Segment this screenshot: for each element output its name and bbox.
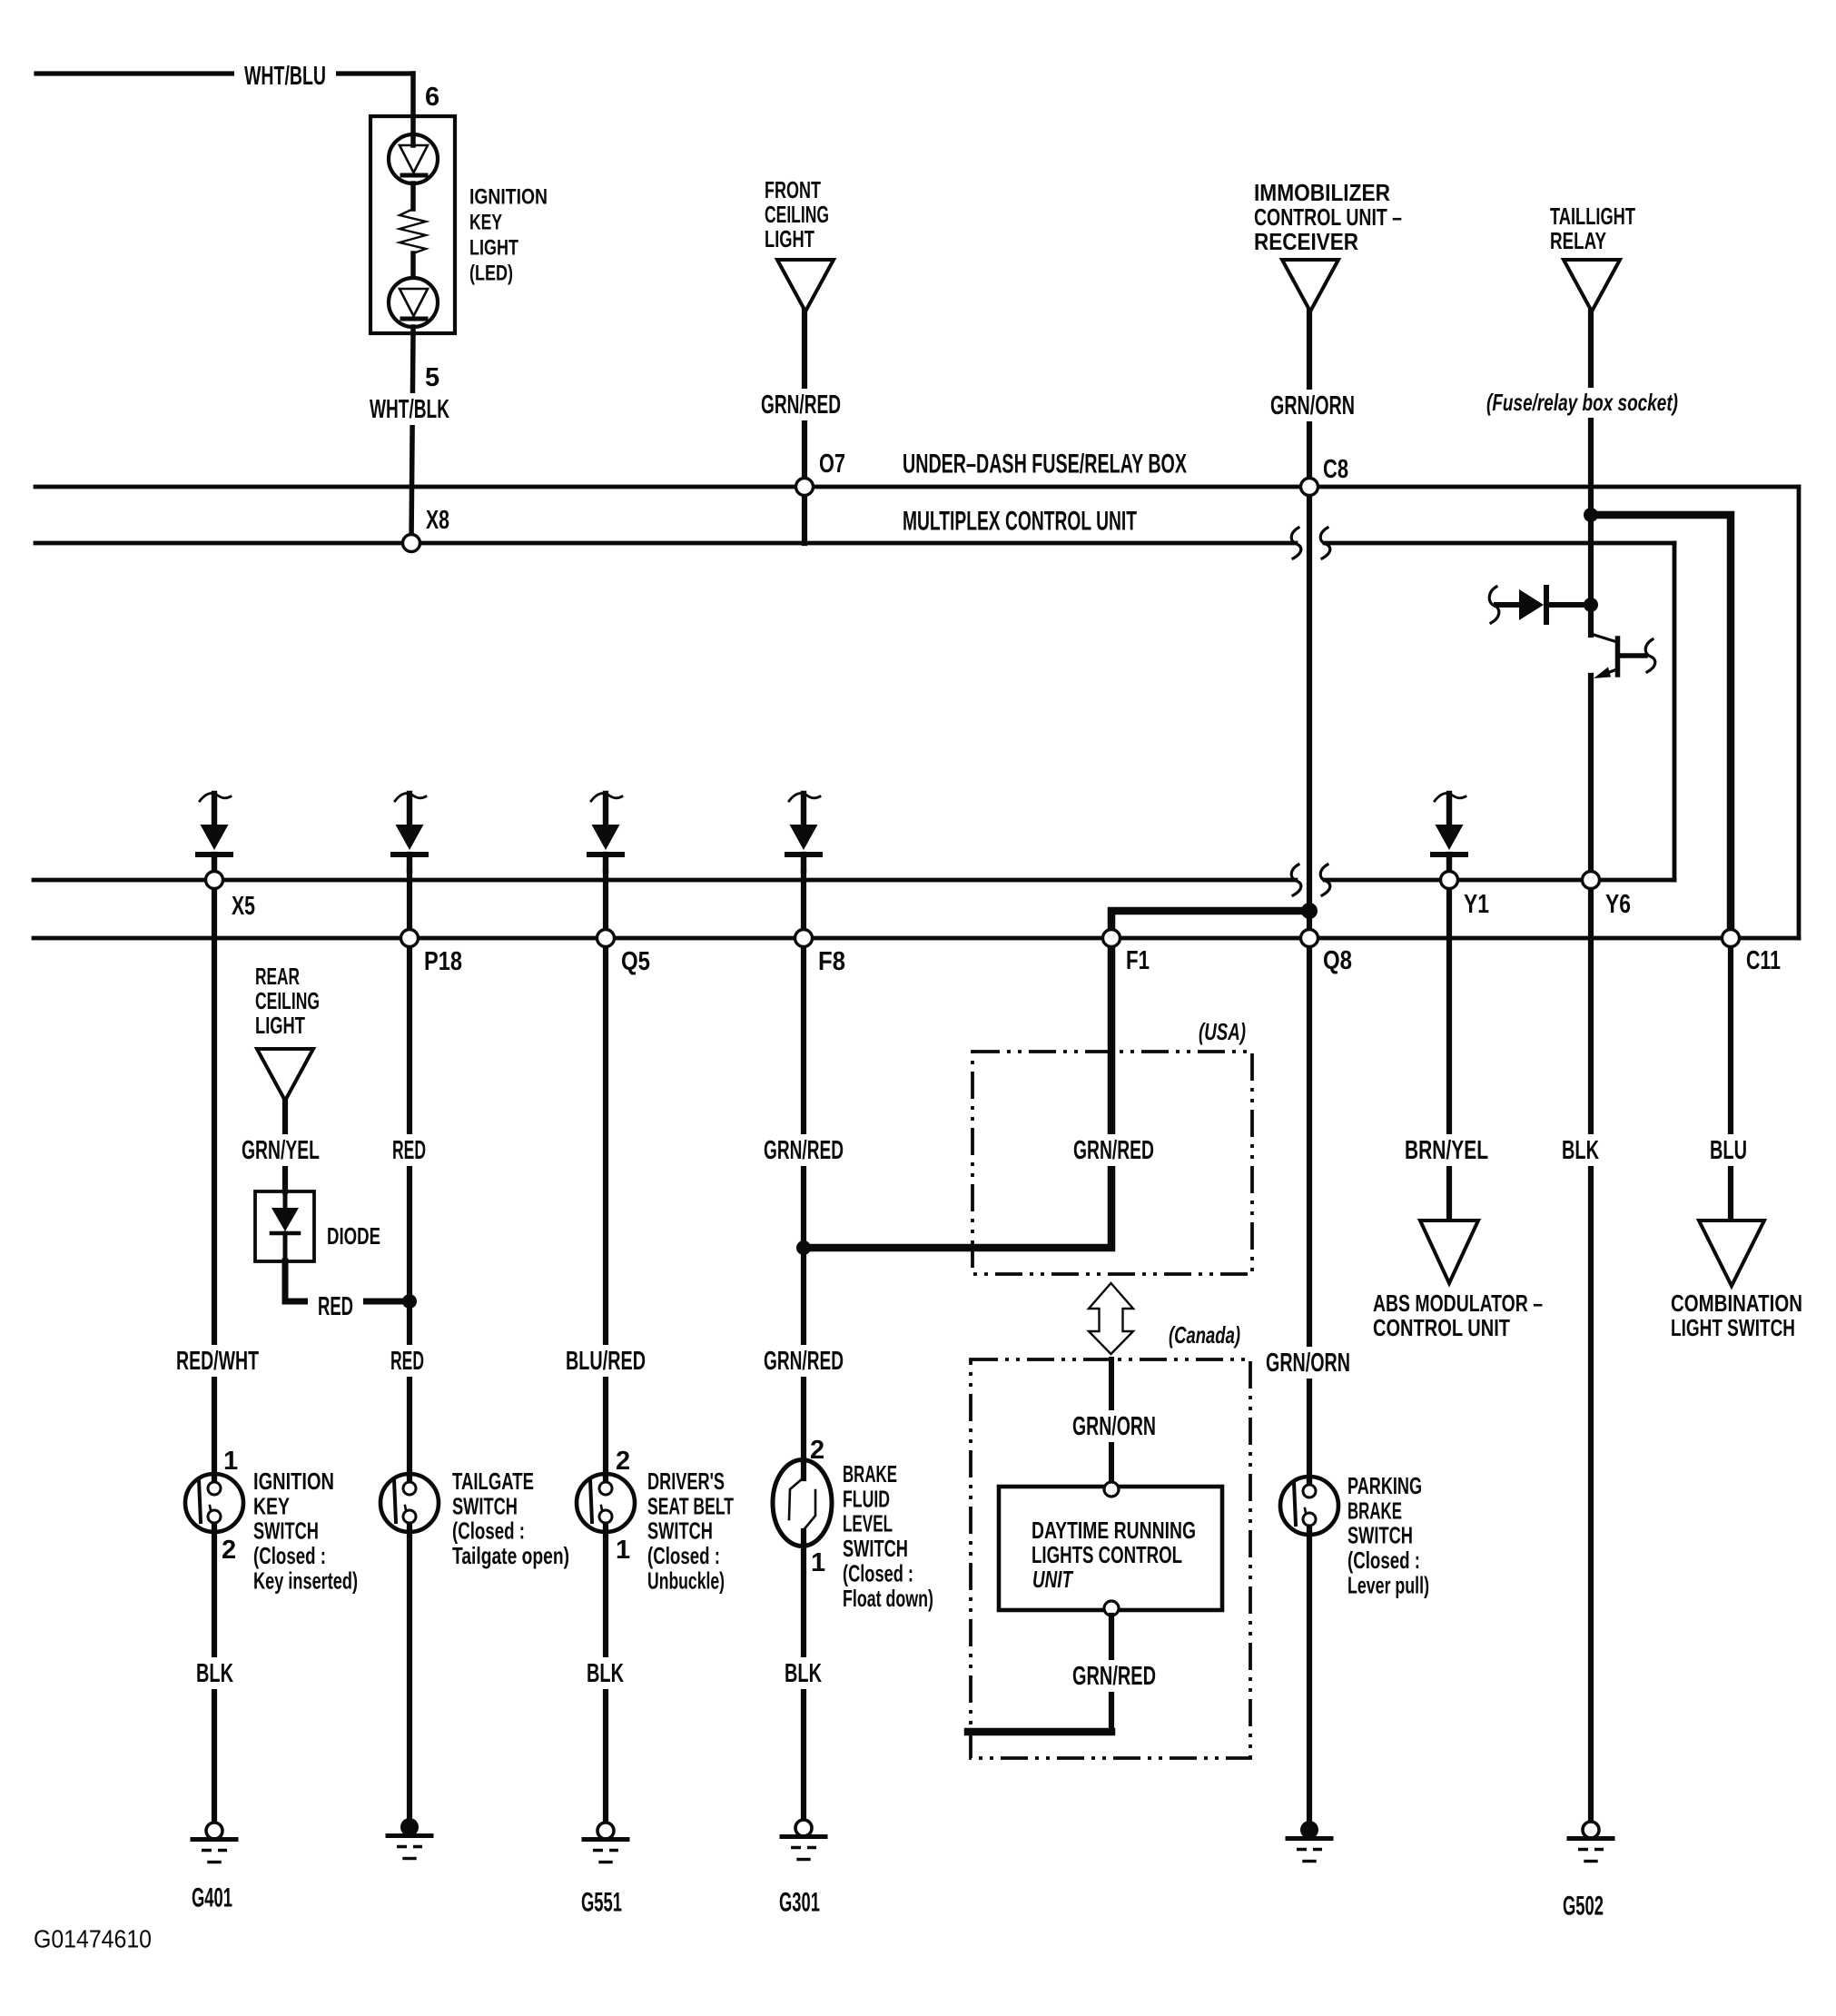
svg-text:SEAT BELT: SEAT BELT — [647, 1492, 734, 1519]
USA dashed box — [972, 1052, 1252, 1274]
ground G301 — [795, 1820, 812, 1836]
svg-text:CONTROL UNIT: CONTROL UNIT — [1373, 1314, 1510, 1341]
svg-text:G401: G401 — [192, 1883, 232, 1913]
transistor (fuse/relay box internal) — [1591, 634, 1617, 642]
break marks on line2 — [1291, 528, 1301, 558]
svg-text:MULTIPLEX CONTROL UNIT: MULTIPLEX CONTROL UNIT — [903, 507, 1137, 537]
wire RED jumper to tailgate column — [285, 1261, 410, 1301]
svg-text:(Fuse/relay box socket): (Fuse/relay box socket) — [1486, 389, 1678, 416]
svg-text:FRONT: FRONT — [765, 176, 821, 203]
svg-text:Float down): Float down) — [843, 1585, 933, 1612]
brake fluid level switch — [773, 1460, 832, 1547]
svg-text:(Closed :: (Closed : — [1347, 1547, 1420, 1574]
svg-text:RED: RED — [318, 1292, 353, 1321]
svg-text:CEILING: CEILING — [255, 987, 320, 1014]
svg-text:FLUID: FLUID — [843, 1485, 890, 1512]
node F8 — [795, 930, 813, 947]
thick jumper from Q8 wire to F1 — [1111, 911, 1309, 931]
svg-text:IGNITION: IGNITION — [469, 185, 548, 210]
svg-text:TAILGATE: TAILGATE — [452, 1468, 534, 1495]
svg-text:BLU: BLU — [1710, 1136, 1747, 1165]
wire BLK to G301 — [801, 1531, 806, 1820]
junction to thick branch — [1584, 508, 1598, 522]
node Q8 — [1301, 930, 1318, 947]
svg-text:BLK: BLK — [1562, 1136, 1599, 1165]
svg-text:1: 1 — [223, 1447, 238, 1476]
svg-text:(Closed :: (Closed : — [843, 1560, 913, 1587]
svg-text:DRIVER'S: DRIVER'S — [647, 1468, 725, 1495]
svg-text:Y1: Y1 — [1464, 890, 1489, 919]
junction on tailgate wire — [402, 1294, 417, 1309]
svg-text:RECEIVER: RECEIVER — [1254, 228, 1358, 255]
svg-text:IMMOBILIZER: IMMOBILIZER — [1254, 179, 1390, 206]
svg-text:LIGHT: LIGHT — [255, 1012, 305, 1039]
driver's seat belt switch — [577, 1474, 635, 1532]
svg-text:X8: X8 — [426, 506, 449, 535]
wire GRN/ORN into DRL unit — [1109, 1359, 1114, 1483]
svg-text:BLK: BLK — [785, 1659, 822, 1688]
svg-text:BRAKE: BRAKE — [843, 1460, 897, 1487]
svg-text:KEY: KEY — [469, 211, 502, 235]
wire GRN/YEL down to diode — [282, 1101, 288, 1191]
svg-text:CONTROL UNIT –: CONTROL UNIT – — [1254, 203, 1402, 231]
wire BLK to G551 — [603, 1531, 608, 1823]
diode (rear ceiling light) box — [255, 1191, 314, 1261]
svg-text:COMBINATION: COMBINATION — [1671, 1290, 1802, 1317]
svg-text:Q5: Q5 — [621, 947, 650, 976]
svg-text:5: 5 — [425, 363, 439, 392]
svg-text:UNIT: UNIT — [1032, 1566, 1074, 1593]
wire taillight relay down (upper) — [1588, 311, 1594, 635]
svg-text:LIGHT: LIGHT — [469, 236, 518, 261]
svg-text:BRN/YEL: BRN/YEL — [1405, 1136, 1488, 1165]
svg-text:G01474610: G01474610 — [34, 1924, 152, 1952]
svg-text:(Canada): (Canada) — [1169, 1321, 1240, 1349]
wire parking brake to ground — [1307, 1534, 1312, 1822]
wire: MULTIPLEX CONTROL UNIT bus (line 2) — [35, 541, 1296, 546]
svg-text:SWITCH: SWITCH — [1347, 1522, 1413, 1549]
svg-text:IGNITION: IGNITION — [253, 1468, 334, 1495]
svg-text:GRN/RED: GRN/RED — [1072, 1662, 1156, 1691]
svg-text:C11: C11 — [1746, 946, 1781, 975]
svg-text:BLK: BLK — [196, 1659, 233, 1688]
wire GRN/RED front ceiling to O7 and line2 — [802, 311, 807, 543]
diode into multiplex unit above F8 — [789, 794, 820, 801]
wire RED tailgate column — [407, 870, 412, 1475]
DRL terminal top — [1104, 1482, 1119, 1497]
svg-text:DIODE: DIODE — [327, 1222, 380, 1250]
svg-text:O7: O7 — [819, 450, 845, 479]
wire: under-dash bus (line 4) — [34, 936, 1799, 941]
svg-text:UNDER–DASH FUSE/RELAY BOX: UNDER–DASH FUSE/RELAY BOX — [903, 450, 1187, 479]
svg-text:F8: F8 — [818, 947, 845, 976]
svg-text:P18: P18 — [424, 947, 462, 976]
thick wire to C11 column — [1591, 515, 1731, 938]
svg-text:Y6: Y6 — [1605, 890, 1631, 919]
wire BRN/YEL to ABS — [1446, 889, 1452, 1220]
svg-text:RELAY: RELAY — [1550, 227, 1606, 254]
node Y6 — [1583, 872, 1600, 889]
resistor (in LED box) — [410, 183, 416, 209]
node Y1 — [1441, 872, 1458, 889]
combination light switch triangle — [1699, 1220, 1764, 1286]
wire BLU to combination light switch — [1728, 947, 1733, 1220]
svg-text:SWITCH: SWITCH — [253, 1517, 319, 1545]
svg-text:Tailgate open): Tailgate open) — [452, 1542, 569, 1569]
svg-text:BLU/RED: BLU/RED — [566, 1347, 646, 1376]
svg-text:GRN/RED: GRN/RED — [761, 390, 841, 420]
svg-text:2: 2 — [810, 1436, 824, 1465]
svg-text:2: 2 — [616, 1447, 630, 1476]
svg-text:(Closed :: (Closed : — [253, 1542, 326, 1569]
wire tailgate to ground — [407, 1531, 412, 1819]
alternative double-arrow — [1089, 1283, 1133, 1354]
daytime running lights control unit box — [999, 1487, 1222, 1610]
svg-text:LIGHT SWITCH: LIGHT SWITCH — [1671, 1314, 1795, 1341]
svg-text:(Closed :: (Closed : — [647, 1542, 720, 1569]
wire GRN/RED out of DRL unit — [1109, 1616, 1114, 1732]
svg-text:(USA): (USA) — [1199, 1018, 1246, 1045]
svg-text:GRN/ORN: GRN/ORN — [1270, 391, 1355, 420]
wire BLU/RED seat belt column — [603, 870, 608, 1475]
svg-text:1: 1 — [616, 1536, 630, 1565]
wire: multiplex bus (line 3) — [34, 878, 1296, 883]
svg-text:SWITCH: SWITCH — [647, 1517, 713, 1545]
wire taillight relay BLK down to G502 — [1588, 676, 1594, 1823]
node C11 — [1722, 930, 1740, 947]
ground G502 — [1583, 1822, 1599, 1838]
thick wire F1 down into USA box, across to F8 junction — [804, 945, 1111, 1248]
svg-text:BLK: BLK — [587, 1659, 624, 1688]
svg-text:GRN/ORN: GRN/ORN — [1072, 1412, 1156, 1441]
wire: line2 right wrap-around down to line3 — [1673, 543, 1677, 880]
svg-text:Unbuckle): Unbuckle) — [647, 1567, 725, 1595]
ignition key switch — [185, 1474, 243, 1532]
svg-text:X5: X5 — [232, 892, 255, 921]
diode into multiplex unit above X5 — [200, 794, 231, 801]
svg-text:REAR: REAR — [255, 963, 300, 990]
diode into multiplex unit above Y1 — [1435, 794, 1466, 801]
diode into multiplex unit above Q5 — [591, 794, 622, 801]
svg-text:G551: G551 — [581, 1888, 622, 1918]
svg-text:LEVEL: LEVEL — [843, 1510, 893, 1537]
svg-text:DAYTIME RUNNING: DAYTIME RUNNING — [1032, 1517, 1196, 1544]
wire WHT/BLU feed — [36, 71, 413, 75]
taillight relay triangle — [1564, 260, 1620, 311]
ground (parking brake, filled) — [1300, 1821, 1318, 1839]
node O7 — [796, 479, 814, 496]
DRL terminal bottom — [1104, 1601, 1119, 1616]
node X8 — [403, 535, 420, 552]
svg-text:KEY: KEY — [253, 1492, 290, 1519]
svg-text:6: 6 — [425, 83, 439, 112]
svg-text:Q8: Q8 — [1323, 946, 1352, 975]
wire: UNDER-DASH FUSE/RELAY BOX bus (line 1) — [35, 485, 1799, 489]
diode feeding taillight wire — [1489, 587, 1499, 623]
node F1 — [1103, 930, 1120, 947]
svg-text:C8: C8 — [1323, 455, 1348, 484]
svg-text:ABS MODULATOR –: ABS MODULATOR – — [1373, 1290, 1543, 1317]
break marks on line3 — [1291, 865, 1301, 895]
svg-text:SWITCH: SWITCH — [843, 1535, 908, 1562]
wire: line1 right wrap-around down to line4 — [1797, 487, 1801, 938]
immobilizer receiver triangle — [1282, 260, 1338, 311]
svg-text:RED: RED — [392, 1136, 426, 1165]
svg-text:RED/WHT: RED/WHT — [176, 1347, 259, 1376]
tailgate switch — [380, 1474, 439, 1532]
svg-text:GRN/YEL: GRN/YEL — [242, 1136, 320, 1165]
wire: down to LED box pin 6 — [410, 74, 416, 116]
front ceiling light triangle — [777, 260, 834, 311]
svg-text:G502: G502 — [1563, 1892, 1604, 1922]
ground G551 — [597, 1823, 614, 1839]
svg-text:WHT/BLK: WHT/BLK — [370, 395, 449, 424]
svg-text:LIGHTS CONTROL: LIGHTS CONTROL — [1032, 1541, 1182, 1568]
ABS modulator triangle — [1420, 1220, 1478, 1283]
node P18 — [401, 930, 419, 947]
svg-text:WHT/BLU: WHT/BLU — [244, 62, 326, 91]
wire GRN/RED brake fluid column — [801, 870, 806, 1478]
wire GRN/ORN immobilizer / C8 / Q8 down to parking brake switch — [1307, 311, 1312, 1485]
svg-text:GRN/RED: GRN/RED — [1073, 1136, 1154, 1165]
svg-text:SWITCH: SWITCH — [452, 1492, 518, 1519]
parking brake switch — [1280, 1477, 1338, 1535]
node C8 — [1301, 479, 1318, 496]
LED 2 — [389, 278, 438, 327]
svg-text:1: 1 — [811, 1548, 825, 1577]
wire BLK to G401 — [212, 1531, 217, 1823]
wire pin 5 WHT/BLK down to X8 — [410, 327, 416, 333]
ignition key light (LED) box — [370, 116, 455, 333]
svg-text:(LED): (LED) — [469, 262, 513, 286]
node X5 — [206, 872, 223, 889]
junction to USA box — [796, 1240, 811, 1255]
svg-text:TAILLIGHT: TAILLIGHT — [1550, 203, 1635, 230]
svg-text:Key inserted): Key inserted) — [253, 1567, 358, 1595]
LED 1 — [389, 134, 438, 183]
svg-text:(Closed :: (Closed : — [452, 1517, 525, 1545]
ground (tailgate, filled) — [400, 1818, 419, 1836]
svg-text:2: 2 — [222, 1536, 236, 1565]
Canada dashed box — [971, 1359, 1250, 1758]
svg-text:LIGHT: LIGHT — [765, 225, 814, 252]
svg-text:CEILING: CEILING — [765, 201, 829, 228]
svg-text:GRN/RED: GRN/RED — [764, 1136, 844, 1165]
svg-text:BRAKE: BRAKE — [1347, 1497, 1402, 1524]
svg-text:Lever pull): Lever pull) — [1347, 1572, 1429, 1599]
diode into multiplex unit above P18 — [395, 794, 426, 801]
svg-text:F1: F1 — [1126, 946, 1150, 975]
svg-text:G301: G301 — [779, 1888, 820, 1918]
svg-text:PARKING: PARKING — [1347, 1472, 1422, 1499]
svg-text:GRN/RED: GRN/RED — [764, 1347, 844, 1376]
rear ceiling light triangle — [257, 1049, 313, 1101]
svg-text:RED: RED — [390, 1347, 424, 1376]
ground G401 — [206, 1823, 222, 1839]
node Q5 — [597, 930, 615, 947]
svg-text:GRN/ORN: GRN/ORN — [1266, 1349, 1350, 1378]
wire RED/WHT ignition key switch column — [212, 888, 217, 1475]
